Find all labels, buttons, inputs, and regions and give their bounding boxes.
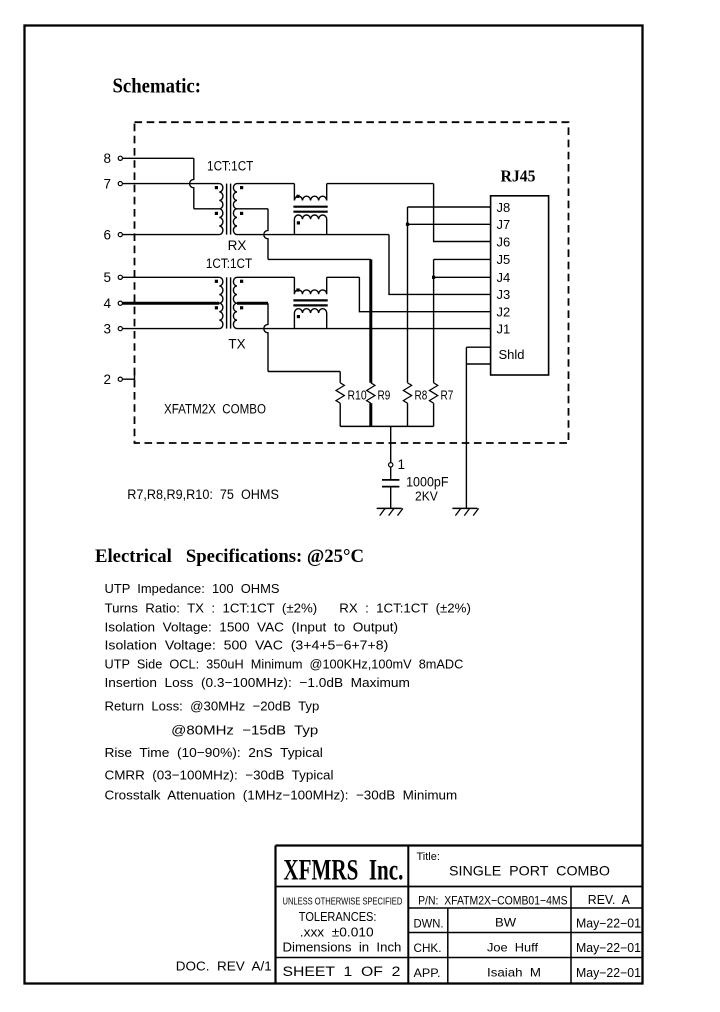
svg-text:UTP Side OCL: 350uH Minimu: UTP Side OCL: 350uH Minimum @100KHz,100m… [105, 657, 464, 672]
svg-text:8: 8 [103, 151, 111, 166]
svg-text:2: 2 [103, 372, 111, 387]
svg-text:APP.: APP. [414, 966, 441, 980]
svg-text:SINGLE PORT COMBO: SINGLE PORT COMBO [449, 863, 610, 879]
svg-text:Shld: Shld [499, 347, 525, 362]
svg-text:2KV: 2KV [415, 488, 438, 503]
svg-text:J5: J5 [497, 252, 511, 267]
svg-text:TX: TX [228, 337, 245, 352]
svg-text:CMRR (03−100MHz): −30dB Typ: CMRR (03−100MHz): −30dB Typical [105, 767, 334, 782]
svg-text:Electrical Specifications: @: Electrical Specifications: @25°C [95, 546, 364, 567]
svg-text:J8: J8 [497, 200, 511, 215]
svg-text:Dimensions in Inch: Dimensions in Inch [283, 941, 402, 955]
svg-text:CHK.: CHK. [414, 941, 442, 955]
svg-text:1CT:1CT: 1CT:1CT [207, 159, 253, 174]
svg-text:Isolation Voltage: 500 VAC: Isolation Voltage: 500 VAC (3+4+5−6+7+8) [105, 638, 389, 653]
svg-text:XFATM2X COMBO: XFATM2X COMBO [164, 401, 266, 416]
svg-text:Turns Ratio: TX : 1CT:1CT: Turns Ratio: TX : 1CT:1CT (±2%) RX : 1CT… [105, 601, 471, 616]
svg-text:Title:: Title: [417, 851, 440, 863]
svg-text:Joe Huff: Joe Huff [487, 941, 539, 955]
svg-text:May−22−01: May−22−01 [576, 941, 641, 955]
svg-text:1: 1 [398, 457, 406, 472]
svg-text:R7,R8,R9,R10: 75 OHMS: R7,R8,R9,R10: 75 OHMS [127, 487, 279, 502]
svg-text:@80MHz −15dB Typ: @80MHz −15dB Typ [171, 722, 318, 737]
svg-text:1000pF: 1000pF [406, 475, 448, 490]
svg-text:J1: J1 [497, 321, 511, 336]
svg-text:Insertion Loss (0.3−100MHz):: Insertion Loss (0.3−100MHz): −1.0dB Maxi… [105, 675, 410, 690]
svg-text:J7: J7 [497, 217, 511, 232]
svg-text:DWN.: DWN. [414, 917, 444, 931]
svg-text:1CT:1CT: 1CT:1CT [206, 256, 252, 271]
svg-text:R10: R10 [348, 388, 367, 403]
svg-text:3: 3 [103, 321, 111, 336]
svg-text:Isaiah M: Isaiah M [487, 966, 541, 980]
svg-text:UNLESS OTHERWISE SPECIFIED: UNLESS OTHERWISE SPECIFIED [283, 896, 403, 908]
svg-text:SHEET 1 OF 2: SHEET 1 OF 2 [283, 964, 401, 979]
svg-text:BW: BW [495, 916, 517, 930]
svg-text:RJ45: RJ45 [501, 166, 536, 185]
svg-text:P/N: XFATM2X−COMB01−4MS: P/N: XFATM2X−COMB01−4MS [418, 894, 567, 908]
svg-text:Rise Time (10−90%): 2nS Ty: Rise Time (10−90%): 2nS Typical [105, 745, 323, 760]
svg-text:.xxx ±0.010: .xxx ±0.010 [300, 926, 374, 940]
svg-text:6: 6 [103, 227, 111, 242]
svg-text:J6: J6 [497, 234, 511, 249]
svg-text:May−22−01: May−22−01 [576, 966, 641, 980]
svg-text:R9: R9 [378, 388, 391, 403]
svg-text:TOLERANCES:: TOLERANCES: [299, 910, 377, 924]
svg-text:UTP Impedance: 100 OHMS: UTP Impedance: 100 OHMS [105, 581, 280, 596]
svg-text:J4: J4 [497, 270, 511, 285]
svg-text:J3: J3 [497, 287, 511, 302]
svg-text:R7: R7 [441, 388, 454, 403]
svg-text:Return Loss: @30MHz −20dB: Return Loss: @30MHz −20dB Typ [105, 699, 320, 714]
svg-text:DOC. REV A/1: DOC. REV A/1 [176, 959, 272, 974]
svg-text:Crosstalk Attenuation (1MHz−: Crosstalk Attenuation (1MHz−100MHz): −30… [105, 787, 458, 802]
svg-text:RX: RX [228, 238, 247, 253]
svg-text:7: 7 [103, 176, 111, 191]
svg-text:Schematic:: Schematic: [113, 74, 202, 98]
svg-text:4: 4 [103, 296, 111, 311]
svg-text:May−22−01: May−22−01 [576, 917, 641, 931]
svg-text:R8: R8 [415, 388, 428, 403]
svg-text:XFMRS Inc.: XFMRS Inc. [283, 854, 403, 887]
svg-text:5: 5 [103, 270, 111, 285]
svg-text:J2: J2 [497, 305, 511, 320]
svg-text:REV. A: REV. A [588, 893, 631, 907]
svg-text:Isolation Voltage: 1500 VAC: Isolation Voltage: 1500 VAC (Input to Ou… [105, 619, 399, 634]
